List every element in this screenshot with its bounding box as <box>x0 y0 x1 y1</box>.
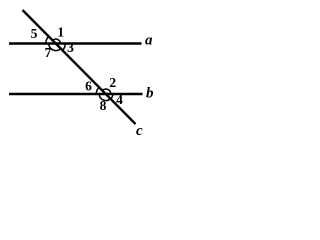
svg-text:3: 3 <box>67 40 74 55</box>
angle 4 arc <box>111 94 113 99</box>
angle 2 arc <box>103 89 111 94</box>
svg-text:a: a <box>145 33 153 49</box>
svg-text:6: 6 <box>85 79 92 94</box>
svg-text:4: 4 <box>116 92 123 107</box>
svg-text:7: 7 <box>45 45 52 60</box>
svg-text:5: 5 <box>31 26 38 41</box>
angle 6 arc <box>96 87 99 94</box>
svg-text:c: c <box>136 123 143 139</box>
angle 7 arc <box>49 44 61 51</box>
svg-text:8: 8 <box>100 98 107 113</box>
line a <box>9 42 142 44</box>
angle 1 arc <box>53 39 61 43</box>
line c transversal <box>23 10 136 124</box>
svg-text:b: b <box>146 86 154 102</box>
svg-text:2: 2 <box>109 75 116 90</box>
angle 5 arc <box>46 36 49 44</box>
svg-text:1: 1 <box>57 25 64 40</box>
line b <box>9 93 143 95</box>
angle 8 arc <box>99 94 110 100</box>
angle 3 arc <box>62 44 65 51</box>
